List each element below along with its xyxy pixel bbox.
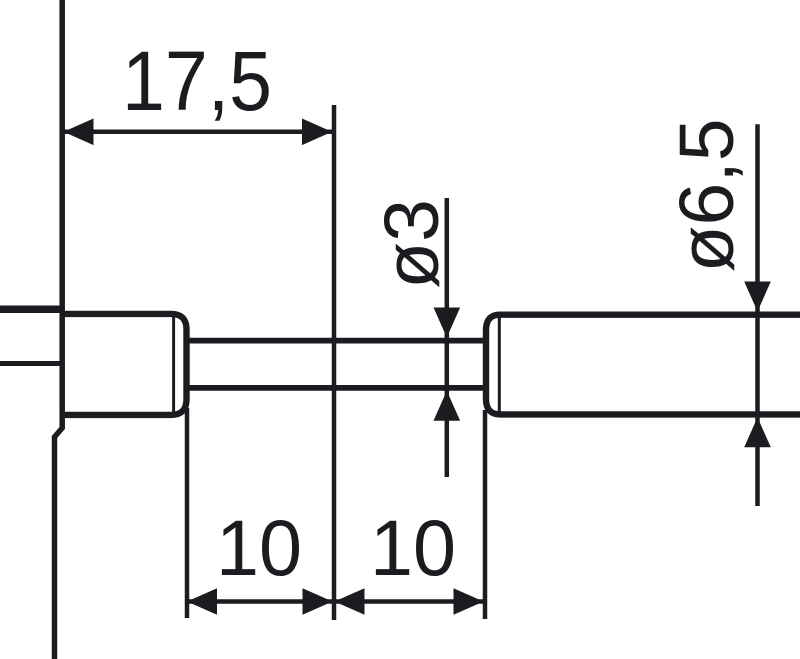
- svg-text:ø6,5: ø6,5: [664, 118, 750, 272]
- node: arrowhead 17,5 right: [302, 119, 332, 146]
- node: arrowhead 10 right outer: [454, 588, 484, 615]
- node: arrowhead 17,5 left: [64, 119, 94, 146]
- wire: 10 dimension line bottom: [187, 599, 484, 604]
- wire: extension line left 10: [185, 408, 190, 618]
- wire: thin rod bottom edge: [186, 385, 484, 391]
- svg-text:10: 10: [216, 503, 302, 592]
- node: arrowhead dia6,5 down: [744, 282, 771, 312]
- wire: block rounding tangent line: [172, 316, 175, 413]
- wire: thin rod top edge: [186, 338, 484, 344]
- node: arrowhead 10 left inner: [303, 588, 333, 615]
- svg-text:ø3: ø3: [369, 199, 455, 289]
- node: arrowhead 10 left outer: [187, 588, 217, 615]
- node: arrowhead dia3 up: [434, 391, 461, 421]
- node: arrowhead dia3 down: [434, 308, 461, 338]
- wire: extension line for 17,5 and 10 dims (middle): [332, 105, 337, 620]
- node A: left stepped block outline: [62, 314, 187, 415]
- node B: right cylinder outline: [486, 315, 800, 415]
- wire: diameter 6,5 dimension vertical line: [755, 124, 760, 506]
- wire: left holder top edge: [0, 306, 64, 314]
- wire: left holder lower edge: [0, 361, 64, 366]
- svg-text:10: 10: [370, 503, 456, 592]
- wire: extension line right 10: [483, 410, 488, 619]
- wire: diameter 3 dimension vertical line: [445, 198, 450, 477]
- svg-text:17,5: 17,5: [122, 34, 272, 128]
- node: arrowhead 10 right inner: [335, 588, 365, 615]
- wire: left vertical body edge (top): [55, 0, 63, 659]
- wire: 17,5 dimension line: [63, 130, 332, 135]
- node: arrowhead dia6,5 up: [744, 417, 771, 447]
- wire: cylinder rounding tangent line: [498, 317, 501, 412]
